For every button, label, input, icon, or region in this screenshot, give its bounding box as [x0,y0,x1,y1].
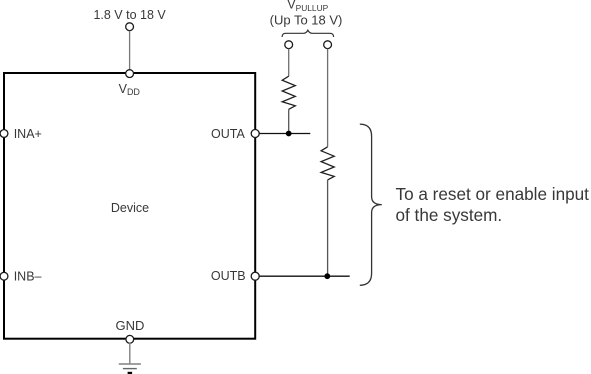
pin VDD [126,70,134,78]
ground wire [129,343,131,364]
ground bar 2 [123,368,137,370]
svg-text:GND: GND [116,318,145,333]
wire pullup A to resistor R1 [288,49,290,76]
big brace to system [360,124,382,285]
wire OUTA [259,133,310,135]
svg-text:(Up To 18 V): (Up To 18 V) [270,12,343,27]
svg-text:OUTB: OUTB [211,269,246,283]
terminal VPULLUP-B [324,41,332,49]
wire supply to VDD [129,31,131,69]
svg-text:To a reset or enable input: To a reset or enable input [396,184,590,204]
resistor R1 [282,76,295,109]
pin INB- [0,272,8,280]
wire OUTB [259,275,349,277]
ground bar 1 [119,363,141,365]
terminal VIN (1.8V supply) [126,23,134,31]
wire R1 to OUTA node [288,109,290,133]
svg-text:VDD: VDD [119,82,141,97]
pin GND [126,335,134,343]
svg-text:of the system.: of the system. [396,205,503,225]
pin OUTB [251,272,259,280]
svg-text:INA+: INA+ [14,127,42,141]
wire R2 to OUTB node [327,180,329,276]
junction node B [324,273,330,279]
ground bar 3 [128,372,133,374]
svg-text:INB–: INB– [14,270,42,284]
resistor R2 [321,147,334,180]
device box U1 [4,73,255,339]
svg-text:OUTA: OUTA [211,127,245,141]
wire pullup B down [327,49,329,147]
pin INA+ [0,130,8,138]
pin OUTA [251,130,259,138]
small brace over pullup terminals [282,30,334,37]
terminal VPULLUP-A [285,41,293,49]
svg-text:1.8 V to 18 V: 1.8 V to 18 V [93,8,166,22]
junction node A [286,131,292,137]
svg-text:Device: Device [111,201,149,215]
svg-text:VPULLUP: VPULLUP [287,0,328,13]
